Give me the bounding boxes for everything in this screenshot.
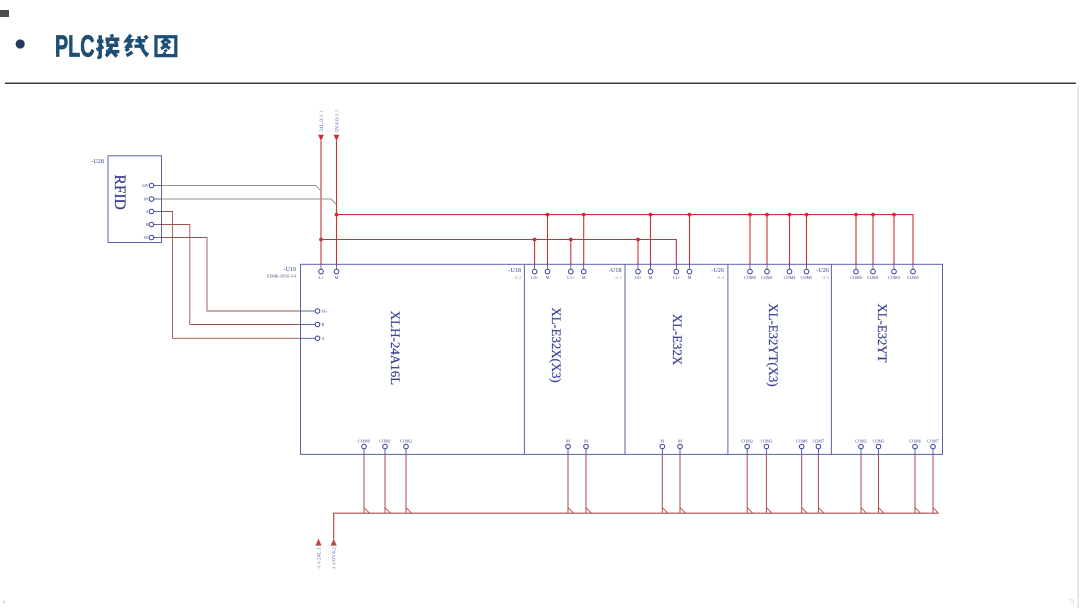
wire 0V drop at x=789.5: [789, 215, 791, 265]
cross reference -U26 /4.5: [816, 267, 829, 280]
svg-text:a: a: [3, 600, 6, 605]
top pin COM0 at x=750.0: [744, 264, 756, 280]
pin A of U28: [146, 209, 162, 214]
module name XLH-24A16L: [388, 311, 403, 385]
junction: [788, 213, 792, 217]
svg-text:PLC: PLC: [55, 30, 95, 64]
bottom pin COM7 at x=933.0: [927, 438, 939, 454]
svg-text:4.4/0V4.2: 4.4/0V4.2: [332, 547, 338, 570]
wire from COM7 x=818.4 to bus: [818, 454, 824, 513]
svg-text:-U26: -U26: [711, 267, 724, 274]
svg-text:-U19: -U19: [283, 266, 296, 273]
left pin SG of U19: [301, 309, 327, 314]
svg-text:L0+: L0+: [531, 275, 539, 280]
svg-text:M: M: [335, 275, 339, 280]
junction: [582, 213, 586, 217]
top pin COM0 at x=856.0: [850, 264, 862, 280]
pin 24V of U28: [142, 183, 162, 188]
junction M feed: [335, 213, 339, 217]
junction: [533, 238, 537, 242]
title glyph jie: [96, 34, 119, 57]
svg-text:0V4.0/4.1: 0V4.0/4.1: [334, 109, 340, 132]
wire from M x=568.0 to bus: [568, 454, 574, 513]
bottom pin M at x=568.0: [566, 438, 571, 454]
svg-text:COM6: COM6: [796, 438, 808, 443]
net label 0V4.0: [334, 109, 340, 132]
title bullet: [16, 39, 25, 48]
top pin COM4 at x=894.0: [888, 264, 901, 280]
wire 0V drop at x=547.5: [547, 215, 549, 265]
top pin M at x=547.5: [545, 264, 550, 280]
svg-text:24V: 24V: [142, 184, 149, 188]
wire from COM7 x=933.0 to bus: [933, 454, 939, 513]
junction: [636, 238, 640, 242]
svg-text:COM2: COM2: [400, 438, 412, 443]
divider between module 3 and 4: [727, 264, 729, 454]
svg-text:M: M: [649, 275, 653, 280]
RFID text: [111, 175, 128, 210]
wire 0V drop at x=650.5: [650, 215, 652, 265]
wire 24V drop at x=638.0: [637, 240, 639, 265]
wire COM return bus: [334, 513, 939, 539]
top pin COM4 at x=789.5: [784, 264, 797, 280]
top pin L+ at x=321.0: [319, 264, 325, 280]
svg-text:SG: SG: [322, 309, 327, 314]
wire 0V feed vertical to M: [336, 141, 338, 264]
net label 24L.0: [319, 110, 325, 132]
svg-text:L1+: L1+: [673, 275, 681, 280]
junction: [871, 213, 875, 217]
wire from M x=662.3 to bus: [662, 454, 668, 513]
wire from COM1 x=385.0 to bus: [385, 454, 391, 513]
svg-text:COM2: COM2: [741, 438, 753, 443]
svg-text:XD6B(-30T-E 4-4: XD6B(-30T-E 4-4: [267, 274, 296, 279]
RFID reader U28 box: [108, 156, 162, 243]
wire 0V drop at x=806.5: [806, 215, 808, 265]
wire from COM2 x=861.0 to bus: [861, 454, 867, 513]
PLC main unit U19 box: [301, 264, 943, 454]
svg-text:COM1: COM1: [379, 438, 391, 443]
svg-text:L+: L+: [319, 275, 325, 280]
top pin M at x=650.5: [648, 264, 653, 280]
wire 0V drop at x=689.5: [689, 215, 691, 265]
wire from COM2 x=406.0 to bus: [406, 454, 412, 513]
svg-text:XLH-24A16L: XLH-24A16L: [388, 311, 403, 385]
bottom pin COM2 at x=747.2: [741, 438, 753, 454]
module name XL-E32YT: [875, 304, 889, 363]
bottom pin COM3 at x=766.4: [761, 438, 773, 454]
top pin M at x=336.5: [334, 264, 339, 280]
junction: [569, 238, 573, 242]
arrow down 24V source: [318, 135, 324, 141]
svg-text:COM5: COM5: [907, 275, 919, 280]
svg-text:-U18: -U18: [508, 267, 521, 274]
svg-text:M: M: [566, 438, 570, 443]
label -U19: [283, 266, 296, 273]
top pin M at x=583.7: [581, 264, 586, 280]
wire B from U28 to U19: [162, 225, 301, 325]
junction: [649, 213, 653, 217]
junction: [892, 213, 896, 217]
arrow up net 24L.1: [315, 539, 321, 546]
title PLC wiring diagram: [55, 30, 95, 64]
svg-text:-U28: -U28: [91, 158, 104, 165]
left pin A of U19: [301, 336, 325, 341]
bottom pin COM2 at x=406.0: [400, 438, 412, 454]
svg-text:4.4/24L.1: 4.4/24L.1: [316, 547, 322, 569]
svg-text:B: B: [146, 223, 149, 227]
svg-text:-U26: -U26: [816, 267, 829, 274]
svg-text:M: M: [584, 438, 588, 443]
page marks bottom: [3, 600, 1075, 605]
svg-text:B: B: [322, 322, 325, 327]
arrow down 0V source: [334, 135, 340, 141]
svg-text:COM7: COM7: [927, 438, 939, 443]
bottom pin M at x=586.0: [584, 438, 589, 454]
svg-text:COM7: COM7: [813, 438, 825, 443]
wire from COM6 x=801.7 to bus: [802, 454, 808, 513]
wire from COM3 x=766.4 to bus: [766, 454, 772, 513]
svg-text:XL-E32YT: XL-E32YT: [875, 304, 889, 363]
divider between module 4 and 5: [830, 264, 832, 454]
wire 24V from U28 to L+ line: [162, 186, 322, 192]
divider between module 1 and 2: [523, 264, 525, 454]
junction: [748, 213, 752, 217]
bottom pin COM3 at x=878.5: [873, 438, 885, 454]
model text of U19: [267, 274, 296, 279]
pin 0V of U28: [144, 197, 162, 202]
module name XL-E32YT(X3): [766, 303, 780, 386]
svg-text:COM3: COM3: [761, 438, 773, 443]
wire 0V bus (upper): [337, 215, 914, 265]
top pin M at x=689.5: [687, 264, 692, 280]
net label 0V4.2: [332, 547, 338, 570]
wire from M x=586.0 to bus: [586, 454, 592, 513]
junction: [546, 213, 550, 217]
svg-text:COM1: COM1: [761, 275, 773, 280]
top pin COM5 at x=913.0: [907, 264, 919, 280]
svg-text:/4.2: /4.2: [514, 275, 522, 280]
svg-text:COM6: COM6: [909, 438, 921, 443]
svg-text:COM5: COM5: [801, 275, 813, 280]
arrow up net 0V4.2: [331, 539, 337, 546]
svg-text:73: 73: [1069, 600, 1075, 605]
svg-text:COM0: COM0: [358, 438, 370, 443]
bottom pin M at x=662.3: [660, 438, 665, 454]
svg-text:M: M: [678, 438, 682, 443]
top pin L0+ at x=534.6: [531, 264, 539, 280]
wire 24V drop at x=570.8: [570, 240, 572, 265]
pin SG of U28: [144, 235, 162, 240]
svg-text:A: A: [146, 210, 149, 214]
left pin B of U19: [301, 322, 325, 327]
top pin COM1 at x=767.0: [761, 264, 773, 280]
wire 24V feed vertical to L+: [320, 141, 322, 264]
svg-text:L1+: L1+: [567, 275, 575, 280]
module name XL-E32X: [670, 314, 684, 366]
svg-text:-U18: -U18: [609, 267, 622, 274]
bottom pin COM1 at x=385.0: [379, 438, 391, 454]
svg-text:XL-E32YT(X3): XL-E32YT(X3): [766, 303, 780, 386]
svg-text:A: A: [322, 336, 325, 341]
net label 24L.1: [316, 547, 322, 569]
label -U28: [91, 158, 104, 165]
svg-text:COM3: COM3: [873, 438, 885, 443]
wire from M x=680.0 to bus: [680, 454, 686, 513]
svg-text:XL-E32X: XL-E32X: [670, 314, 684, 366]
wire 0V drop at x=583.7: [583, 215, 585, 265]
svg-text:M: M: [582, 275, 586, 280]
svg-text:COM4: COM4: [888, 275, 901, 280]
svg-text:/4.4: /4.4: [717, 275, 725, 280]
wire 0V drop at x=856.0: [855, 215, 857, 265]
svg-text:COM2: COM2: [855, 438, 867, 443]
wire 24V bus (lower): [321, 240, 676, 265]
bottom pin COM2 at x=861.0: [855, 438, 867, 454]
svg-text:0V: 0V: [144, 198, 149, 202]
wire 0V drop at x=873.0: [872, 215, 874, 265]
svg-text:COM0: COM0: [744, 275, 756, 280]
junction: [854, 213, 858, 217]
title underline: [5, 83, 1076, 85]
wire from COM6 x=915.0 to bus: [915, 454, 921, 513]
bottom pin COM7 at x=818.4: [813, 438, 825, 454]
wire A from U28 to U19: [162, 212, 301, 339]
svg-text:COM4: COM4: [784, 275, 797, 280]
svg-text:COM1: COM1: [867, 275, 879, 280]
top pin COM5 at x=806.5: [801, 264, 813, 280]
pin B of U28: [146, 222, 162, 227]
top pin L1+ at x=570.8: [567, 264, 575, 280]
cross reference -U18 /4.3: [609, 267, 622, 280]
svg-text:24L.0/4.1: 24L.0/4.1: [319, 110, 325, 132]
svg-text:L0+: L0+: [634, 275, 642, 280]
bottom pin COM6 at x=801.7: [796, 438, 808, 454]
junction: [805, 213, 809, 217]
junction L+ feed: [319, 238, 323, 242]
svg-text:M: M: [688, 275, 692, 280]
svg-text:/4.5: /4.5: [822, 275, 830, 280]
title glyph xian: [125, 35, 147, 56]
svg-text:M: M: [660, 438, 664, 443]
svg-text:COM0: COM0: [850, 275, 862, 280]
right edge line: [1078, 86, 1079, 608]
wire from COM0 x=364.0 to bus: [364, 454, 370, 513]
bottom pin COM0 at x=364.0: [358, 438, 370, 454]
wire 0V drop at x=750.0: [749, 215, 751, 265]
module name XL-E32X(X3): [549, 307, 563, 382]
junction: [688, 213, 692, 217]
corner mark top-left: [0, 10, 9, 17]
cross reference -U18 /4.2: [508, 267, 521, 280]
divider between module 2 and 3: [624, 264, 626, 454]
top pin COM1 at x=873.0: [867, 264, 879, 280]
bottom pin M at x=680.0: [678, 438, 683, 454]
svg-text:M: M: [546, 275, 550, 280]
junction: [765, 213, 769, 217]
svg-text:/4.3: /4.3: [614, 275, 622, 280]
wire 0V from U28 to M line: [162, 199, 337, 205]
top pin L1+ at x=676.3: [673, 264, 681, 280]
svg-text:SG: SG: [144, 236, 149, 240]
wire from COM3 x=878.5 to bus: [879, 454, 885, 513]
top pin L0+ at x=638.0: [634, 264, 642, 280]
svg-text:RFID: RFID: [111, 175, 128, 210]
wire 24V drop at x=534.6: [534, 240, 536, 265]
svg-text:XL-E32X(X3): XL-E32X(X3): [549, 307, 563, 382]
wire 0V drop at x=894.0: [893, 215, 895, 265]
wire 0V drop at x=767.0: [766, 215, 768, 265]
wire SG from U28 to U19: [162, 238, 301, 312]
wire from COM2 x=747.2 to bus: [747, 454, 753, 513]
bottom pin COM6 at x=915.0: [909, 438, 921, 454]
cross reference -U26 /4.4: [711, 267, 724, 280]
title glyph tu: [156, 37, 176, 56]
